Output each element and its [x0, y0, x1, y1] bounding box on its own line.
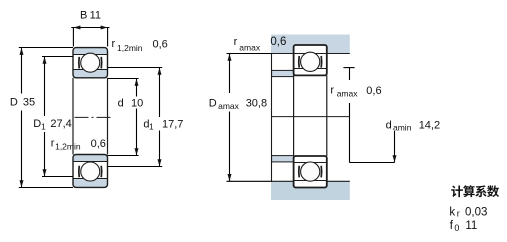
B dimension extension lines: [72, 28, 74, 47]
svg-text:0,03: 0,03: [465, 206, 487, 218]
shaft shoulder strip top: [272, 70, 294, 76]
svg-text:17,7: 17,7: [162, 119, 183, 131]
bearing section left-top: ball: [81, 53, 100, 72]
svg-text:amax: amax: [218, 101, 240, 111]
bearing section right-bottom: ball: [301, 162, 320, 181]
shoulder face line left: [271, 54, 273, 182]
label 计算系数 (calculation factors): [451, 185, 463, 197]
bearing section left-bottom: inner ring band: [73, 179, 108, 188]
svg-text:30,8: 30,8: [246, 98, 267, 110]
d1 dimension line: [159, 68, 161, 118]
B dimension line: [71, 27, 109, 29]
svg-text:r: r: [234, 36, 238, 48]
svg-text:14,2: 14,2: [419, 119, 440, 131]
bearing section left-top: groove shoulder arcs: [78, 57, 80, 69]
svg-text:r: r: [330, 84, 334, 96]
bearing section right-bottom: outline: [294, 156, 327, 188]
bearing section right-bottom: ring separation lines: [294, 162, 327, 164]
svg-text:amin: amin: [393, 123, 412, 133]
svg-text:d: d: [118, 97, 124, 109]
bearing section left-bottom: outline: [73, 155, 108, 188]
damin dimension line: top tick: [343, 67, 354, 69]
svg-text:27,4: 27,4: [50, 118, 71, 130]
svg-text:D: D: [209, 98, 217, 110]
svg-text:10: 10: [131, 97, 143, 109]
d dimension extension lines: [108, 78, 139, 80]
svg-text:d: d: [386, 119, 392, 131]
svg-text:D: D: [33, 118, 41, 130]
svg-text:1: 1: [41, 122, 46, 132]
housing bottom band (slab): [271, 181, 350, 200]
svg-text:r: r: [457, 209, 460, 219]
bearing section left-bottom: outer ring band: [73, 155, 108, 162]
D1 dimension line: [44, 57, 46, 117]
bearing section right-top: ring separation lines: [294, 53, 327, 55]
svg-text:11: 11: [90, 9, 101, 21]
left figure centerline (dash-dot): [75, 116, 112, 118]
svg-text:amax: amax: [239, 43, 261, 53]
Damax dimension extension lines: [227, 53, 272, 55]
bearing section right-top: groove shoulder arcs: [298, 56, 300, 68]
damin shoulder extension line: [350, 162, 395, 164]
D dimension line: [21, 48, 23, 94]
bearing section left-bottom: ring separation lines: [73, 161, 108, 163]
svg-text:D: D: [10, 96, 18, 108]
bearing section left-top: ring separation lines: [73, 54, 108, 56]
bearing section left-top: inner ring band: [73, 70, 108, 78]
svg-text:0,6: 0,6: [91, 138, 106, 150]
bearing section left-top: outline: [73, 48, 108, 78]
bearing section left-bottom: groove shoulder arcs: [78, 166, 80, 178]
damin dimension line: vertical segments: [349, 68, 351, 80]
svg-text:11: 11: [465, 220, 477, 232]
svg-text:35: 35: [23, 96, 35, 108]
svg-text:B: B: [80, 9, 87, 21]
bearing section left-bottom: ball: [81, 162, 100, 181]
svg-text:1,2min: 1,2min: [55, 141, 81, 151]
svg-text:amax: amax: [337, 89, 359, 99]
d1 dimension extension lines: [108, 67, 163, 69]
svg-text:r: r: [112, 38, 116, 50]
svg-text:0,6: 0,6: [153, 39, 168, 51]
bearing section right-top: outline: [294, 45, 327, 75]
shaft shoulder strip bottom: [272, 156, 294, 162]
svg-text:1: 1: [149, 122, 154, 132]
svg-text:1,2min: 1,2min: [117, 43, 143, 53]
bearing section left-top: outer ring band: [73, 48, 108, 55]
bearing section right-bottom: groove shoulder arcs: [298, 166, 300, 178]
D1 dimension extension lines: [42, 56, 73, 58]
svg-text:k: k: [449, 206, 455, 218]
d dimension line: [136, 79, 138, 97]
damin dimension drop line with arrow: [394, 131, 396, 163]
Damax dimension line: [229, 54, 231, 94]
bearing section right-top: ball: [301, 52, 320, 71]
svg-text:0,6: 0,6: [270, 36, 286, 48]
svg-text:0: 0: [454, 223, 459, 233]
housing top band: [271, 35, 350, 54]
left bearing side faces (vertical connect lines): [72, 78, 74, 155]
right figure centerline: [272, 116, 350, 118]
right bearing side faces: [293, 75, 295, 156]
svg-text:r: r: [51, 137, 55, 149]
D dimension extension lines: [19, 47, 73, 49]
svg-text:0,6: 0,6: [366, 85, 381, 97]
